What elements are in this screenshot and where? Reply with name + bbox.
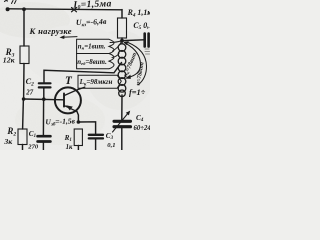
wire C4 bottom <box>121 128 123 150</box>
node top junction <box>22 7 26 11</box>
svg-text:1к: 1к <box>66 144 73 150</box>
leader box2 to coil <box>112 54 119 58</box>
svg-text:270: 270 <box>27 143 39 150</box>
wire C1 branch <box>42 99 44 135</box>
svg-text:f=1÷: f=1÷ <box>129 88 146 97</box>
wire top rail <box>9 9 122 10</box>
wire to C5 <box>122 39 143 42</box>
leader box1 to node <box>110 41 121 43</box>
capacitor C1 <box>38 136 51 141</box>
transistor T <box>55 87 85 113</box>
wire C3 bottom <box>95 140 97 151</box>
wire C2 to base <box>43 89 45 99</box>
capacitor C2 <box>39 83 51 87</box>
svg-text:Lк=98мкгн: Lк=98мкгн <box>79 78 113 87</box>
resistor R3 <box>20 46 29 64</box>
arc winding n_k <box>125 43 141 78</box>
svg-text:R4 1,1к: R4 1,1к <box>127 8 150 18</box>
terminal b'' <box>5 1 17 12</box>
callout box winding n_sv <box>77 54 114 69</box>
wire coil to C4 <box>121 95 123 120</box>
wire emitter rail <box>78 122 95 134</box>
node base junction left <box>22 97 26 101</box>
wire left rail middle <box>23 64 25 100</box>
svg-text:0,1: 0,1 <box>107 142 115 149</box>
svg-text:T: T <box>65 75 73 87</box>
wire R4 to node <box>121 38 123 41</box>
resistor R1 <box>74 129 82 146</box>
capacitor C3 <box>89 135 103 139</box>
ammeter point x <box>72 8 77 12</box>
svg-text:К нагрузке: К нагрузке <box>29 26 72 36</box>
node emitter junction <box>77 120 81 124</box>
wire left rail upper <box>23 9 25 46</box>
svg-text:C5 0,1: C5 0,1 <box>133 21 150 31</box>
svg-text:12к: 12к <box>3 56 16 65</box>
wire R1 bottom <box>77 146 79 151</box>
wire collector rail right <box>121 10 123 18</box>
svg-text:3к: 3к <box>3 137 13 146</box>
arrow to load <box>62 36 77 39</box>
capacitor C5 <box>145 34 149 47</box>
callout box Lk <box>78 75 121 88</box>
inductor Lk coil <box>121 41 123 44</box>
arc winding outer <box>128 43 147 86</box>
svg-text:27: 27 <box>25 90 33 97</box>
wire C2 up feedback <box>44 63 122 83</box>
node tank top <box>120 39 124 43</box>
node base junction C2 <box>42 97 46 101</box>
wire emitter down <box>77 112 78 122</box>
capacitor C4 variable <box>114 121 131 126</box>
callout box winding n_h <box>77 39 114 53</box>
svg-text:60÷24: 60÷24 <box>134 125 151 132</box>
paper background <box>0 0 150 150</box>
resistor R4 <box>118 18 127 38</box>
wire base <box>24 98 64 101</box>
wire C1 bottom <box>42 143 44 150</box>
wire left rail lower <box>22 99 25 150</box>
resistor R2 <box>18 129 27 145</box>
C5 lower faint marks <box>145 49 150 54</box>
leader node fan extra <box>113 42 122 51</box>
